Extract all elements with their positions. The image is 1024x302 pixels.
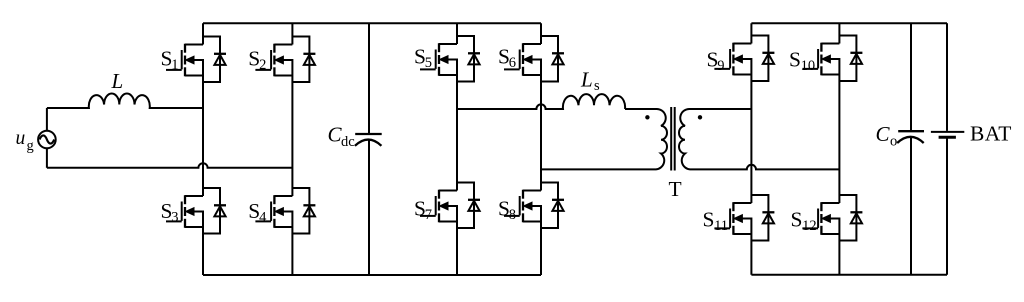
label S9 — [707, 48, 725, 74]
wire bottom rail dc-link — [203, 274, 541, 276]
wire top rail dc-link — [203, 22, 541, 24]
battery BAT — [931, 23, 964, 275]
transistor S5 with body diode — [420, 36, 480, 82]
transformer T secondary winding — [679, 109, 721, 169]
svg-text:12: 12 — [802, 218, 817, 234]
transistor S1 with body diode — [166, 37, 226, 83]
transistor S7 with body diode — [420, 183, 480, 229]
svg-text:BAT: BAT — [970, 122, 1012, 146]
transistor S6 with body diode — [504, 36, 564, 82]
wire source top lead — [46, 108, 48, 131]
wire leg1 vertical segments — [202, 23, 204, 275]
polarity dot secondary — [698, 115, 702, 119]
svg-text:L: L — [111, 69, 124, 93]
label S6 — [498, 45, 516, 71]
wire secondary bottom with hop over leg S9/S11 — [721, 165, 839, 170]
label S11 — [703, 208, 729, 234]
svg-text:2: 2 — [259, 57, 266, 73]
label S10 — [789, 48, 815, 74]
label C_dc — [328, 122, 355, 150]
transistor S3 with body diode — [166, 188, 226, 234]
wire secondary top to leg S9/S11 — [721, 108, 751, 110]
wire leg3 vertical segments — [456, 23, 458, 275]
wire leg6 vertical segments — [838, 23, 840, 275]
svg-text:11: 11 — [714, 218, 728, 234]
svg-text:dc: dc — [341, 134, 355, 150]
transistor S12 with body diode — [802, 195, 862, 241]
transistor S8 with body diode — [504, 183, 564, 229]
label S8 — [498, 197, 516, 223]
svg-text:S: S — [789, 48, 801, 72]
label Co — [876, 122, 898, 150]
svg-text:4: 4 — [259, 209, 267, 225]
svg-text:8: 8 — [509, 207, 516, 223]
transistor S4 with body diode — [255, 188, 315, 234]
svg-text:9: 9 — [717, 58, 724, 74]
label S1 — [161, 47, 179, 73]
label S4 — [248, 199, 267, 225]
ac source u_g — [38, 131, 56, 149]
svg-text:g: g — [27, 138, 34, 154]
svg-text:T: T — [669, 177, 682, 201]
label S12 — [791, 208, 817, 234]
svg-text:u: u — [16, 128, 26, 149]
inductor Ls with bridge2 midpoint wire and hop over leg S6/S8 — [457, 94, 625, 109]
svg-text:7: 7 — [425, 207, 432, 223]
svg-text:6: 6 — [509, 55, 516, 71]
svg-text:o: o — [890, 134, 897, 150]
svg-text:C: C — [876, 122, 891, 146]
svg-text:S: S — [703, 208, 715, 232]
transformer core — [671, 107, 675, 171]
svg-text:10: 10 — [801, 58, 816, 74]
inductor L with input top wire — [47, 93, 203, 108]
label S5 — [414, 45, 432, 71]
polarity dot primary — [645, 115, 649, 119]
transistor S11 with body diode — [714, 195, 774, 241]
wire bridge2 lower midpoint to transformer — [541, 168, 625, 170]
svg-text:L: L — [580, 68, 593, 92]
wire leg5 vertical segments — [750, 23, 752, 275]
label u_g — [16, 128, 34, 154]
svg-text:s: s — [594, 78, 600, 94]
wire leg4 vertical segments — [540, 23, 542, 275]
wire top rail output — [751, 22, 947, 24]
svg-text:1: 1 — [171, 57, 178, 73]
transistor S10 with body diode — [802, 36, 862, 82]
wire bottom rail output — [751, 274, 947, 276]
label S2 — [248, 47, 266, 73]
label Ls — [580, 68, 600, 95]
wire input bottom with hop over leg S1/S3 — [47, 163, 293, 168]
wire source bottom lead — [46, 148, 48, 168]
svg-text:3: 3 — [171, 209, 178, 225]
wire leg2 vertical segments — [291, 23, 293, 275]
transistor S2 with body diode — [255, 37, 315, 83]
label S7 — [414, 197, 432, 223]
label S3 — [161, 199, 179, 225]
transistor S9 with body diode — [714, 36, 774, 82]
svg-text:S: S — [791, 208, 803, 232]
capacitor Co — [897, 23, 924, 275]
capacitor C_dc — [355, 23, 382, 275]
svg-text:5: 5 — [425, 55, 432, 71]
transformer T primary winding — [625, 109, 667, 169]
